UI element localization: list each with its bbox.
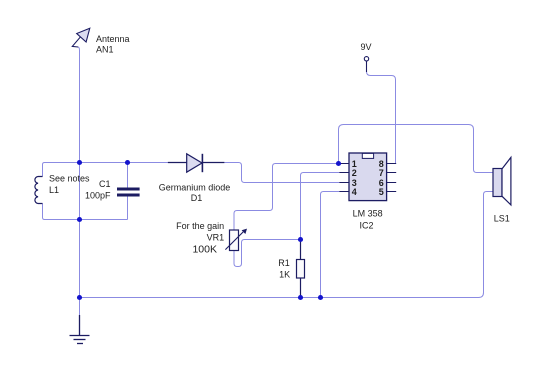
svg-text:Antenna: Antenna [96,34,130,44]
diode D1 germanium [168,154,225,172]
IC2 pin numbers 1-8 [352,159,384,197]
svg-text:100K: 100K [192,244,217,256]
svg-text:R1: R1 [278,258,290,268]
svg-text:9V: 9V [361,42,372,52]
svg-text:5: 5 [379,187,384,197]
wire C1 top lead [127,163,129,188]
svg-text:For the gain: For the gain [176,221,224,231]
wire diode cathode step down to IC pin 3 [224,163,339,183]
wire left branch of L1 tank loop [43,163,128,220]
wire IC pin 4 left and down to ground rail [321,192,340,298]
wire antenna vertical down to top rail [78,47,80,163]
svg-text:IC2: IC2 [359,221,373,231]
svg-text:LM 358: LM 358 [353,208,383,218]
svg-text:2: 2 [352,168,357,178]
potentiometer VR1 [225,229,247,251]
svg-text:D1: D1 [191,193,203,203]
capacitor C1 plates [117,188,140,197]
junction node C1 top [125,160,130,165]
svg-text:AN1: AN1 [96,45,114,55]
junction node L1 bottom rail [77,217,82,222]
wire VR1 bottom terminal U-loop to wiper net [234,240,301,267]
svg-text:1K: 1K [279,270,290,280]
svg-text:4: 4 [352,187,357,197]
junction node VR1 wiper / R1 top / pin 2 [298,237,303,242]
wire top rail L1/C1/antenna to diode anode [45,162,169,164]
svg-text:7: 7 [379,168,384,178]
wire IC pin 1 left to VR1 top terminal [234,164,339,231]
junction node antenna/top-rail [77,160,82,165]
ground [70,315,90,344]
svg-text:C1: C1 [99,179,111,189]
op-amp IC2 LM358 DIP-8 body [339,153,396,201]
wire 9V supply down to IC pin 8 [367,61,396,164]
wire C1 bottom lead [127,197,129,220]
9V supply terminal [364,57,368,72]
svg-text:Germanium diode: Germanium diode [159,183,231,193]
svg-text:LS1: LS1 [494,213,510,223]
wire IC pin 1 loop up over IC to speaker top terminal [339,125,494,173]
svg-text:VR1: VR1 [207,233,225,243]
svg-text:L1: L1 [49,185,59,195]
junction node IC pin 1 output [336,161,341,166]
antenna AN1 [72,28,90,47]
wire vertical from top rail through L1 bottom rail down to ground [79,163,81,317]
svg-text:See notes: See notes [49,173,90,183]
inductor L1 coil [35,177,43,204]
svg-text:100pF: 100pF [85,190,111,200]
wire IC pin 2 left and down to R1 top junction [301,173,340,240]
wire ground rail and speaker bottom terminal return [80,192,494,298]
resistor R1 [297,240,305,298]
speaker LS1 [493,157,511,205]
junction node pin 4 on ground rail [318,295,323,300]
junction node ground rail at ground symbol [77,295,82,300]
junction node R1 bottom on ground rail [298,295,303,300]
